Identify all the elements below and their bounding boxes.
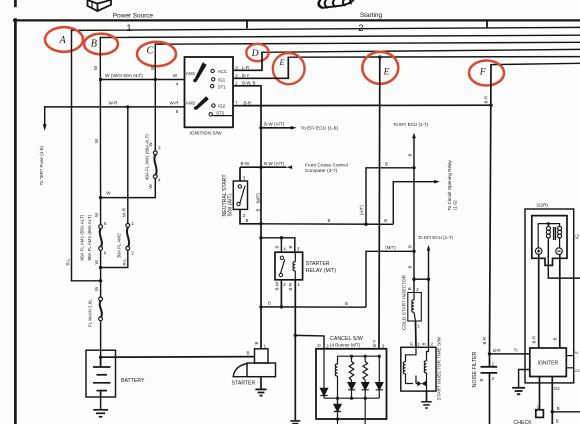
node junction to EFI ECU 1-6 [259,121,338,131]
svg-text:ST1: ST1 [218,85,227,90]
svg-text:B: B [421,343,426,346]
svg-text:STARTER: STARTER [306,261,330,267]
svg-text:W (W/O 60A ALT): W (W/O 60A ALT) [105,73,143,79]
ground below battery [93,397,108,417]
bus wire C [155,42,580,44]
svg-text:B: B [328,218,331,223]
fuse FL AM1 40A (C wire) [153,151,157,179]
svg-text:(M/T): (M/T) [255,193,260,204]
wire pin7 B-R to node F [233,104,491,107]
wire A to B join [72,280,101,282]
node B circle [84,34,118,55]
svg-text:B-R: B-R [484,96,489,103]
wire coil HT output through notch [548,240,580,278]
starter M1 [232,342,276,396]
ignition coil T1 box [532,216,567,266]
node junction cruise control / neutral start [240,161,348,174]
terminal AM1 [186,62,207,82]
wire C below fuse to joint [101,178,156,197]
svg-text:R-L: R-L [122,258,127,266]
ignition coil windings [538,222,561,248]
terminal AM2 [186,96,209,110]
svg-text:(22R): (22R) [537,202,549,207]
svg-text:Starting: Starting [360,12,382,19]
fuse FL AM1 80A (B wire) [99,225,103,251]
wire B rail to starter [259,250,415,309]
diode D4 [376,383,383,390]
svg-text:B-W: B-W [241,161,251,166]
node E circle (right) [362,52,398,84]
start injector time switch box [401,347,436,391]
svg-text:B-W (A/T): B-W (A/T) [264,121,285,126]
time switch internals [403,347,428,391]
labels left section [39,65,179,327]
svg-text:½: ½ [514,347,518,354]
svg-text:60A FL AM1 (55A ALT): 60A FL AM1 (55A ALT) [80,214,85,260]
node W junction at B [99,78,102,81]
node W-R junction [126,105,129,108]
wire M/T up branch [366,251,414,307]
wire to EFI ECU 1-7 (lower arrow) [427,245,431,347]
diode D3 [362,383,369,390]
svg-text:B: B [407,287,412,290]
wire pin2 B-Y to node E [233,57,288,78]
svg-text:B: B [254,342,259,345]
fuse FL AM2 30A [126,224,130,251]
wire E2 vertical drop to cancel switch [378,57,381,349]
svg-text:RELAY (M/T): RELAY (M/T) [306,268,337,274]
wires leaving box bottom [337,412,339,424]
coil L1 [337,356,339,364]
svg-text:W: W [94,138,99,143]
power source illustration (fuse box sketch, cut off at top) [88,0,112,11]
svg-text:FL MAIN 2.0L: FL MAIN 2.0L [88,299,93,327]
wire W-R bus to ignition [45,106,185,108]
wire B vertical (upper) [99,38,101,225]
svg-text:B: B [408,154,413,157]
svg-text:B: B [255,209,260,212]
svg-text:To “EFI” Fuse (1-6): To “EFI” Fuse (1-6) [39,145,44,185]
svg-text:W: W [94,212,99,217]
node junction to diagnostics [551,410,580,413]
column tick 2 [486,22,488,28]
wire to circuit opening relay [393,182,435,225]
column tick 1 [246,22,248,28]
svg-text:B: B [288,246,293,249]
svg-text:W: W [93,65,98,70]
cancel switch internals [320,349,383,424]
relay pin2 wire [280,280,282,307]
svg-text:From Cruise Control: From Cruise Control [305,162,348,168]
wire AM2 drop [127,107,129,224]
wire coil plus to igniter [538,254,540,348]
resistor R2 [364,356,366,361]
svg-text:B: B [274,246,279,249]
node B/C join [99,196,102,199]
wire A vertical drop [71,30,73,280]
relay coil [294,252,296,280]
svg-text:IG2: IG2 [218,104,226,109]
svg-text:G: G [410,342,414,347]
igniter box [530,348,567,377]
svg-text:80A FL AM1 (60A ALT): 80A FL AM1 (60A ALT) [87,214,92,260]
contact ST2 [209,111,233,116]
bottom rail [324,397,379,399]
svg-text:To EFI ECU (1-6): To EFI ECU (1-6) [301,126,339,132]
bimetal contact arrows [417,381,422,386]
svg-text:B: B [385,162,388,167]
svg-text:Power Source: Power Source [113,12,154,19]
svg-text:CANCEL S/W: CANCEL S/W [330,336,363,342]
svg-text:B: B [557,406,560,411]
svg-text:D: D [251,49,259,59]
wire to EFI fuse drop with arrow [44,107,46,125]
coil plus terminal [535,248,542,255]
svg-text:W-R: W-R [121,207,126,217]
svg-text:IG1: IG1 [218,77,226,82]
contact ST1 [211,85,227,90]
svg-text:E: E [383,68,390,78]
svg-text:To EFI ECU (1-7): To EFI ECU (1-7) [418,235,453,240]
svg-text:AM1: AM1 [186,71,196,76]
starter relay K1 [275,252,336,280]
svg-text:W-R: W-R [109,100,119,105]
svg-text:R-L: R-L [66,258,71,266]
svg-text:B-Y: B-Y [242,73,249,78]
SECTION: left feeders [43,30,185,367]
contact IG1 [212,77,226,82]
svg-text:W: W [148,184,153,189]
svg-text:STARTER: STARTER [232,381,256,387]
svg-text:B: B [317,344,322,347]
svg-text:CHECK: CHECK [514,420,533,424]
relay pin1 wire B-R [294,280,296,421]
wire igniter pin 2/2 down [551,377,553,424]
wire AM2 fuse to B join [101,250,128,267]
diode D1 [320,388,327,395]
check connector [536,410,544,418]
battery [86,350,116,397]
node W junction at C [154,78,157,81]
node noise filter junction [488,352,530,355]
wire A/T up branch [366,168,414,224]
wire C vertical drop [154,44,156,151]
igniter ground [512,370,530,395]
svg-text:Computer (3-7): Computer (3-7) [305,168,338,174]
wire F vertical drop [490,65,492,354]
svg-text:W: W [173,73,178,78]
junction dots left section [99,78,157,359]
svg-text:B: B [556,418,559,423]
noise filter capacitor [481,354,498,424]
svg-text:IG: IG [574,234,579,239]
svg-text:NOISE FILTER: NOISE FILTER [472,352,478,388]
ground below time switch [421,391,432,408]
node A/B join [99,279,102,282]
svg-text:2/2: 2/2 [575,368,580,373]
svg-text:W: W [94,286,99,291]
fuse FL MAIN 2.0L [99,297,103,321]
distributor assembly box (22R) [525,209,574,383]
bus wire D [262,49,580,52]
svg-text:AM2: AM2 [186,101,196,106]
wire pin3 L-R to node D [233,52,262,70]
svg-text:B: B [408,245,413,248]
svg-text:B-R: B-R [532,336,537,343]
cancel switch box [316,336,387,419]
svg-text:W-R: W-R [170,100,180,105]
svg-text:40A FL AM1 (60A ALT): 40A FL AM1 (60A ALT) [144,134,149,180]
svg-text:B: B [408,266,413,269]
svg-text:E: E [279,58,285,67]
page frame top border [14,19,580,21]
svg-text:B-R: B-R [482,337,487,344]
svg-text:To EFI ECU (1-7): To EFI ECU (1-7) [393,122,428,127]
node battery positive [99,356,102,359]
bus wire A [72,27,580,30]
svg-text:ST2: ST2 [216,111,225,116]
svg-text:(M/T): (M/T) [385,245,396,250]
diode D2 [348,383,355,390]
wire injector to time switch [415,321,418,347]
svg-text:S/W (A/T): S/W (A/T) [228,193,234,216]
node E circle (left) [273,53,305,84]
bus wire E [288,56,580,59]
page frame left bar [14,0,17,424]
wire to EFI ECU 1-7 (upper arrow) [412,133,416,252]
svg-text:W: W [94,260,99,265]
svg-text:START INJECTOR TIME S/W: START INJECTOR TIME S/W [437,337,443,401]
svg-text:1: 1 [126,22,131,33]
svg-text:A: A [59,35,67,46]
wire A/T - M/T branch line [259,166,440,226]
svg-text:B: B [91,39,97,50]
wire pin3 internal [378,356,380,382]
node D circle [246,44,268,61]
svg-text:B-W (A/T): B-W (A/T) [264,161,285,166]
starting illustration (starter motor sketch, cut off at top) [318,0,353,8]
cold start injector circuit [412,251,430,292]
node C circle [137,42,176,66]
node branch to cancel switch [294,334,324,349]
svg-text:IGNITION S/W: IGNITION S/W [190,130,222,136]
wire pin2 internal [323,349,325,389]
cold start injector component [408,293,422,322]
svg-text:B-Y: B-Y [372,339,377,346]
svg-text:2: 2 [358,22,363,33]
diode D5 [337,398,339,404]
svg-text:B: B [268,301,271,306]
wire igniter to check connector [539,377,541,410]
wire B vertical (lower) [100,248,102,298]
svg-text:B-W, B: B-W, B [242,81,256,86]
svg-text:F: F [479,66,487,77]
starter relay feed [259,236,295,252]
svg-text:W: W [106,191,111,196]
contact IG2 [212,104,226,109]
svg-text:B-R: B-R [493,348,500,353]
node F circle [469,61,504,86]
svg-text:B-R: B-R [244,100,251,105]
top rail [338,355,380,357]
bus wire B [100,35,580,37]
svg-text:ACC: ACC [218,69,227,74]
igniter pin stubs right [566,356,573,368]
svg-text:B: B [345,301,348,306]
svg-text:(4 Runner M/T): (4 Runner M/T) [330,342,361,347]
contact ACC [211,69,227,74]
svg-text:B: B [553,338,558,341]
svg-text:(A/T): (A/T) [359,205,364,215]
svg-text:B-W: B-W [274,281,279,290]
svg-text:2/2: 2/2 [554,386,561,391]
svg-text:B: B [479,379,484,382]
wire B into battery [100,319,102,367]
svg-text:(1-5): (1-5) [453,200,458,210]
wire coil minus to igniter [559,254,561,348]
svg-text:W: W [150,65,155,70]
svg-text:L-R: L-R [242,65,249,70]
svg-text:IGNITER: IGNITER [538,361,559,367]
svg-text:B-R: B-R [288,283,293,290]
ignition switch U1 box [185,57,234,127]
wire W bus to ignition [101,79,185,81]
neutral start switch S2 [222,167,261,224]
svg-text:To Circuit Opening Relay: To Circuit Opening Relay [447,159,452,210]
bus wire F [491,63,580,64]
svg-text:B: B [246,218,249,223]
svg-text:C: C [147,46,154,57]
svg-text:BATTERY: BATTERY [121,378,145,384]
coil minus terminal [556,248,563,255]
node B/AM2 join [99,266,102,269]
ground at relay pin1 bottom [290,421,300,424]
svg-text:B: B [247,351,250,356]
node A circle [45,27,83,52]
svg-text:B: B [384,218,387,223]
wire pin1 B-W,B main vertical [233,86,261,349]
svg-text:COLD START INJECTOR: COLD START INJECTOR [401,274,407,330]
wire battery to starter B [101,356,255,359]
resistor R1 [351,356,353,361]
svg-text:30A FL AM2: 30A FL AM2 [116,233,121,258]
